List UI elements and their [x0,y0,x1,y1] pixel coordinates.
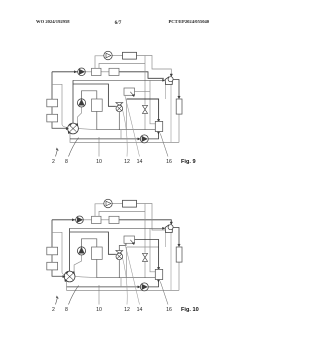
arrow at receiver bottom port [157,280,159,282]
wire: brine pump top into exchanger 14 [82,239,97,247]
wire: desuperheater down right side to return [178,262,180,290]
wire: exchanger second port across to check-valve riser [99,64,145,69]
header center: sheet number [0,20,236,26]
svg-text:14: 14 [137,159,143,165]
wire: expansion tank down to compressor left inlet [137,204,166,231]
arrowhead into compressor [170,74,172,77]
header left: publication number [36,19,70,24]
expansion valve (triangle + circle with cross) [116,103,123,106]
arrowhead into circulator pump [138,286,140,288]
wire: branch from riser down left of valve [52,84,62,124]
arrowhead on feed line before pump 8 [74,71,76,73]
arrowhead at compressor end of header [163,79,165,81]
wire: heat exchanger 10 to module 12 [101,219,109,221]
wire: tee drop from header down to receiver left port [150,80,155,124]
left radiator 2b [47,262,58,270]
wire: left supply line to pump 8 [52,71,78,73]
leader for reference 10 [98,137,100,157]
valve internal arrowheads [75,124,78,127]
compressor motor circle [168,225,173,230]
desuperheater 20 [176,99,182,114]
wire: circulation pump to expansion tank 6 [112,203,122,205]
arrowhead at compressor end of header [163,227,165,229]
four-way valve [64,271,75,282]
desuperheater 20 [176,247,182,262]
wire: brine pump bottom into four-way valve [74,255,81,273]
check valve (bow-tie) [142,253,147,257]
expansion tank 6 [123,52,137,59]
wire: compressor suction parallel drop [170,85,172,143]
arrow at throttle outlet into condenser box [130,92,133,95]
wire: brine pump top into exchanger 14 [82,91,97,99]
wire: branch from riser down left of valve [52,232,62,272]
arrowhead on feed line before pump 8 [72,219,74,221]
svg-text:Fig. 9: Fig. 9 [181,159,196,165]
wire: throttle stub line down into receiver top [135,240,159,269]
circulator pump (filled triangle right) [140,135,148,143]
svg-text:16: 16 [166,307,172,313]
wire: four-way valve right port curve to collector [79,129,97,130]
wire: between left radiators [51,255,53,262]
check valve (bow-tie) [142,105,147,109]
svg-text:2: 2 [52,159,55,165]
arrowhead into circulator pump [138,138,140,140]
brine pump (filled triangle up) [77,99,85,107]
wire: circulator pump outlet up into receiver 16 [149,132,159,139]
wire: circulator pump outlet up into receiver 16 [149,280,159,287]
wire: module 12 outlet across to compressor top inlet [119,220,171,223]
wire: throttle 18 right stub across to tee drop [135,91,151,93]
wire: pump 8 outlet to heat exchanger 10 [83,219,91,221]
port arrow left of valve [63,275,65,277]
wire: expansion valve bottom port down to collector [118,112,120,130]
expansion valve (triangle + circle with cross) [116,251,123,254]
svg-text:8: 8 [65,307,68,313]
circulation pump 4 (open triangle) [104,199,112,207]
module 12 [109,68,119,75]
wire: left riser down to radiator stack [51,72,53,99]
heating pump 8 (filled triangle) [76,216,84,224]
exchanger 14 [92,247,103,259]
wire: compressor stub down to condenser box top [165,233,167,248]
wire: pump feed line teed from valve bottom riser [67,286,140,288]
exchanger 14 [92,99,103,111]
wire: radiator stack down to four-way valve left port [52,122,67,128]
wire: suction header across at y80 to compressor [70,227,164,229]
wire: exchanger top port up to circulation pump line [95,204,104,217]
wire: collector drop to pump feed [120,278,122,287]
wire: four-way valve top riser [69,228,71,271]
valve internal arrowheads [72,272,75,275]
wire: expansion tank down-and-over to compressor top [137,56,172,75]
wire: compressor stub down to condenser box top [165,85,167,100]
svg-text:12: 12 [124,159,130,165]
wire: condenser box top edge into receiver top [127,99,159,120]
arrowhead into receiver top [157,267,159,269]
heat exchanger 10 [92,68,102,75]
leader for reference 14 (to throttle) [125,244,140,305]
leader for reference 12 (to expansion valve) [121,252,127,305]
throttle 18 [124,236,135,243]
wire: compressor discharge to desuperheater 20 [173,228,179,246]
wire: heat exchanger 10 to module 12 [101,71,109,73]
svg-text:16: 16 [166,159,172,165]
arrowhead into receiver top [157,119,159,121]
circulator pump (filled triangle right) [140,283,148,291]
header right: application number [169,19,210,24]
expansion tank 6 [123,200,137,207]
wire: check-valve lower segment down to collector [144,114,146,130]
wire: expansion valve bottom port down to collector [118,260,120,278]
wire: collector drop to pump feed [120,130,122,139]
leader for reference 8 [69,138,79,157]
wire: check-valve riser x145 [144,56,146,105]
svg-text:10: 10 [96,159,102,165]
wire: compressor suction parallel drop [170,233,172,291]
wire: four-way valve right port curve to collector [75,277,97,278]
wire: radiator stack down to four-way valve left port [52,270,64,276]
leader for reference 12 (to expansion valve) [121,104,127,157]
compressor motor circle [168,77,173,82]
svg-text:12: 12 [124,307,130,313]
wire: condenser box top edge [127,246,159,248]
wire: check-valve riser x145 [144,204,146,253]
wire: left riser down to radiator stack [51,220,53,247]
circulation pump 4 (open triangle) [104,51,112,59]
wire: between left radiators [51,107,53,115]
arrowhead into desuperheater [178,96,180,98]
wire: valve bottom riser down to return line [70,134,179,143]
wire: expansion valve top up to throttle 18 bottom [119,243,126,250]
heating pump 8 (filled triangle) [78,68,86,76]
wire: exchanger top port up to circulation pump line [95,56,104,69]
svg-text:Fig. 10: Fig. 10 [181,307,199,313]
wire: valve bottom riser down to return line [67,282,179,291]
arrowhead into compressor top [170,222,172,225]
wire: condenser box left edge [126,247,128,278]
arrow at throttle outlet into condenser box [130,240,133,243]
leader arrow for reference 2 [56,298,58,305]
heat exchanger 10 [92,216,102,223]
leader for reference 16 [160,282,168,305]
port arrow left of valve [66,127,68,129]
wire: module 12 outlet to compressor left inlet [119,72,164,79]
left radiator 2a [47,247,58,255]
wire: left supply line to pump 8 [52,219,76,221]
wire: tee drop from header down to receiver left port [150,228,155,271]
compressor 22 (pentagon housing) [165,225,172,233]
four-way valve [68,123,79,134]
brine pump (filled triangle up) [77,247,85,255]
receiver 16 [155,121,162,131]
wire: exchanger second port across to check-valve riser [99,212,145,217]
wire: brine pump bottom into four-way valve [78,107,82,125]
wire: exchanger 14 bottom down to collector line [97,259,156,277]
svg-text:14: 14 [137,307,143,313]
wire: suction header across at y80 to compressor [73,79,164,81]
left radiator 2a [47,99,58,107]
wire: check-valve lower segment down to collector [144,262,146,278]
leader for reference 16 [160,134,168,157]
receiver 16 [155,269,162,279]
arrowhead into desuperheater [178,244,180,246]
arrow at receiver bottom port [157,132,159,134]
wire: exchanger 14 bottom down to collector line [97,111,156,129]
wire: module frame from riser to expansion valve left port [73,84,116,106]
wire: condenser box left edge [126,99,128,130]
wire: pump 8 outlet to heat exchanger 10 [85,71,91,73]
module 12 [109,216,119,223]
svg-text:2: 2 [52,307,55,313]
wire: four-way valve top riser [72,80,74,123]
left radiator 2b [47,114,58,122]
leader for reference 8 [69,286,79,305]
leader for reference 14 (to throttle) [125,96,140,157]
compressor 22 (pentagon housing) [165,77,172,85]
wire: circulation pump to expansion tank 6 [112,55,122,57]
svg-text:10: 10 [96,307,102,313]
wire: compressor discharge to desuperheater 20 [173,80,179,98]
wire: desuperheater down right side to return [178,114,180,142]
svg-text:8: 8 [65,159,68,165]
leader for reference 10 [98,285,100,305]
throttle 18 [124,88,135,95]
leader arrow for reference 2 [56,150,58,157]
wire: module frame from riser to expansion valve left port [70,232,116,254]
wire: pump feed line teed from valve bottom riser [70,138,139,140]
